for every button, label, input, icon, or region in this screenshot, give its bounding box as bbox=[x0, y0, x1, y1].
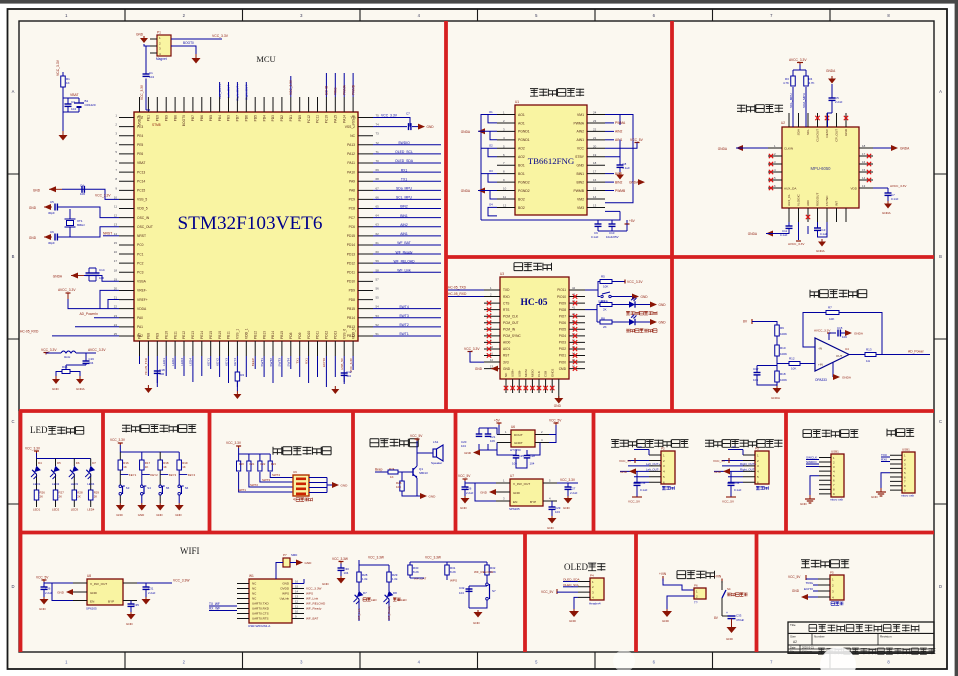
wire top extensions long bbox=[291, 73, 353, 97]
section title 右轮电机编码器接口 bbox=[705, 440, 783, 448]
svg-text:1K: 1K bbox=[66, 81, 70, 85]
svg-text:VCC_3.3V: VCC_3.3V bbox=[56, 59, 60, 76]
ground GND wifi switch bbox=[477, 610, 479, 612]
svg-text:8MHz: 8MHz bbox=[77, 223, 85, 227]
wire reg upper caps bottom bbox=[516, 458, 527, 468]
ground below C19 bbox=[334, 386, 336, 389]
svg-text:PA0: PA0 bbox=[137, 316, 143, 320]
svg-text:GNDA: GNDA bbox=[842, 376, 852, 380]
svg-text:12: 12 bbox=[503, 203, 507, 207]
svg-text:12: 12 bbox=[295, 600, 299, 604]
svg-text:R18: R18 bbox=[780, 372, 786, 376]
svg-text:CLKIN: CLKIN bbox=[784, 146, 793, 150]
ground GND oled bbox=[573, 609, 575, 611]
svg-text:PIO4: PIO4 bbox=[559, 334, 566, 338]
mcu left pins bbox=[119, 118, 134, 336]
svg-text:AO2: AO2 bbox=[518, 147, 525, 151]
svg-text:C17: C17 bbox=[753, 367, 759, 371]
svg-text:BO1: BO1 bbox=[518, 172, 525, 176]
net label WPS pull bbox=[446, 575, 448, 580]
svg-text:GND: GND bbox=[29, 206, 37, 210]
title 自平衡小车系统设计与控制 bbox=[809, 625, 919, 632]
svg-text:BO1: BO1 bbox=[518, 164, 525, 168]
ground C35 bbox=[130, 612, 132, 614]
svg-text:AVCC_3.3V: AVCC_3.3V bbox=[58, 288, 76, 292]
svg-text:UART0.RXD: UART0.RXD bbox=[252, 607, 270, 611]
svg-text:PD12: PD12 bbox=[325, 331, 329, 339]
svg-text:SWT4: SWT4 bbox=[272, 473, 280, 477]
net label AIN1 VCC_5V bbox=[605, 139, 614, 141]
svg-text:1K: 1K bbox=[145, 465, 149, 469]
x marks U3 bottom bbox=[504, 386, 508, 390]
wire PA0 bbox=[94, 317, 119, 319]
capacitor C10 10uF bbox=[609, 223, 616, 225]
red divider horizontal y411 bbox=[19, 409, 934, 413]
wire wifi led col bbox=[358, 582, 360, 621]
capacitor C35 byp wifi bbox=[128, 603, 135, 605]
top dark bar bbox=[0, 0, 958, 4]
wire 8V to divider bbox=[752, 322, 777, 326]
U2 left pins bbox=[768, 148, 782, 188]
svg-text:59: 59 bbox=[376, 259, 380, 263]
battery B1 CR1220 bbox=[74, 102, 84, 104]
svg-text:PGND1: PGND1 bbox=[518, 138, 530, 142]
svg-text:UART0.CTS: UART0.CTS bbox=[252, 612, 269, 616]
svg-text:PB10: PB10 bbox=[218, 331, 222, 339]
svg-text:GND: GND bbox=[800, 502, 808, 506]
svg-text:3V3: 3V3 bbox=[503, 360, 509, 364]
svg-text:PC2: PC2 bbox=[137, 261, 144, 265]
wire pullup rail bbox=[410, 562, 487, 565]
svg-text:+VIN: +VIN bbox=[714, 575, 722, 579]
svg-text:PE12: PE12 bbox=[182, 331, 186, 339]
svg-text:P7: P7 bbox=[283, 553, 287, 557]
svg-text:Left_OUT-: Left_OUT- bbox=[227, 84, 231, 98]
svg-text:PC12: PC12 bbox=[307, 115, 311, 123]
resistor R21 1K dip bbox=[247, 461, 251, 471]
wire dip column 1 bbox=[239, 454, 293, 492]
svg-text:AIN1: AIN1 bbox=[576, 138, 584, 142]
switch S7 wifi bbox=[469, 578, 487, 608]
svg-text:TB6612FNG: TB6612FNG bbox=[528, 156, 575, 166]
svg-text:PB4: PB4 bbox=[218, 115, 222, 121]
svg-text:OLED_SCL: OLED_SCL bbox=[395, 150, 413, 154]
svg-text:R21: R21 bbox=[250, 462, 255, 466]
svg-text:PD8: PD8 bbox=[289, 332, 293, 339]
section title 电源接口 bbox=[677, 571, 714, 579]
svg-text:2020-5-21: 2020-5-21 bbox=[802, 645, 814, 649]
svg-text:16: 16 bbox=[295, 580, 299, 584]
svg-text:PD5: PD5 bbox=[253, 115, 257, 122]
wire key column 3 bbox=[159, 452, 161, 503]
svg-text:AD0: AD0 bbox=[806, 200, 810, 206]
svg-text:R7: R7 bbox=[828, 306, 832, 310]
svg-text:PD7: PD7 bbox=[236, 115, 240, 122]
P4 pins bbox=[578, 582, 590, 598]
svg-text:OLED: OLED bbox=[564, 562, 588, 572]
net label KEY3 bbox=[160, 474, 168, 476]
svg-text:OSC_OUT: OSC_OUT bbox=[137, 225, 153, 229]
svg-text:104: 104 bbox=[530, 462, 535, 466]
capacitor C3 bbox=[65, 103, 72, 105]
wire pullups bbox=[793, 65, 806, 128]
wire key column 2 bbox=[141, 452, 143, 503]
svg-text:22: 22 bbox=[593, 127, 597, 131]
svg-text:VSS_1: VSS_1 bbox=[236, 329, 240, 339]
resistor R22 1K dip bbox=[258, 461, 262, 471]
capacitor C enc bbox=[634, 482, 641, 484]
svg-text:8V: 8V bbox=[743, 320, 748, 324]
svg-text:57: 57 bbox=[376, 277, 380, 281]
svg-text:S7: S7 bbox=[492, 589, 496, 593]
svg-text:R5: R5 bbox=[601, 275, 605, 279]
resistor R19 1K bbox=[177, 460, 182, 470]
svg-text:NRST: NRST bbox=[103, 231, 112, 235]
svg-text:Revision: Revision bbox=[880, 635, 892, 639]
svg-text:WF_Link: WF_Link bbox=[357, 608, 361, 620]
svg-text:104: 104 bbox=[346, 374, 351, 378]
svg-text:10K: 10K bbox=[791, 367, 796, 371]
svg-text:PD14: PD14 bbox=[347, 243, 355, 247]
svg-text:VM2: VM2 bbox=[577, 197, 584, 201]
U7 pins bbox=[496, 483, 557, 501]
svg-text:A: A bbox=[12, 89, 15, 94]
svg-text:CLK: CLK bbox=[537, 371, 541, 377]
resistor R15 filter bbox=[62, 370, 70, 374]
ground GND arrow wifi reg bbox=[66, 589, 73, 595]
svg-text:BO2: BO2 bbox=[518, 197, 525, 201]
wire net AIN2 bbox=[373, 226, 441, 228]
svg-text:GND: GND bbox=[480, 491, 488, 495]
svg-text:BIN2: BIN2 bbox=[615, 180, 622, 184]
capacitor C19 bottom right bbox=[341, 372, 348, 374]
svg-text:SMD: SMD bbox=[291, 553, 297, 557]
capacitor C11 gyro bottom bbox=[786, 225, 793, 227]
capacitor C12 gyro bottom2 bbox=[814, 227, 821, 229]
svg-text:2.2uF: 2.2uF bbox=[148, 591, 156, 595]
svg-text:GNDT: GNDT bbox=[514, 441, 523, 445]
wire VCC_3.3V net row bbox=[373, 118, 410, 127]
svg-text:PD1: PD1 bbox=[289, 115, 293, 122]
svg-text:PWMB: PWMB bbox=[573, 189, 584, 193]
svg-text:LED4: LED4 bbox=[87, 508, 95, 512]
svg-text:PE7: PE7 bbox=[138, 333, 142, 339]
wire BOOT0 bbox=[171, 46, 196, 54]
svg-text:0.1uF: 0.1uF bbox=[591, 235, 599, 239]
resistor R18 1K bbox=[158, 460, 163, 470]
svg-text:C:\Users: C:\Users bbox=[802, 649, 813, 653]
ground C26 bbox=[464, 496, 466, 498]
svg-text:PB12: PB12 bbox=[253, 331, 257, 339]
ground GNDA filter bbox=[79, 376, 81, 379]
svg-text:PE13: PE13 bbox=[191, 331, 195, 339]
svg-text:PD10: PD10 bbox=[347, 280, 355, 284]
svg-text:24: 24 bbox=[114, 323, 118, 327]
svg-text:10K: 10K bbox=[603, 285, 608, 289]
svg-text:GND: GND bbox=[282, 582, 290, 586]
svg-text:SDA: SDA bbox=[797, 128, 801, 135]
wire base bbox=[375, 471, 413, 473]
svg-text:VCC_5V: VCC_5V bbox=[630, 138, 644, 142]
svg-text:C6: C6 bbox=[732, 445, 736, 449]
red divider vertical x672 bbox=[670, 21, 674, 412]
svg-text:SWCLK: SWCLK bbox=[806, 456, 818, 460]
capacitor C9 0.1uF bbox=[595, 223, 602, 225]
wire net RX1 bbox=[373, 171, 441, 173]
resistor R1 bbox=[61, 76, 66, 87]
svg-text:VCC_3.3V: VCC_3.3V bbox=[560, 478, 576, 482]
wire dip column 3 bbox=[260, 454, 293, 482]
ground GND arrow D2 bbox=[650, 319, 657, 325]
svg-text:PD11: PD11 bbox=[316, 331, 320, 339]
svg-text:C7: C7 bbox=[406, 111, 410, 115]
wire oled gnd bbox=[574, 597, 578, 609]
svg-text:PC3: PC3 bbox=[137, 270, 144, 274]
svg-text:PB6: PB6 bbox=[200, 115, 204, 121]
svg-text:12: 12 bbox=[490, 358, 494, 362]
svg-text:PC0: PC0 bbox=[137, 243, 144, 247]
svg-text:VCC_3.3V: VCC_3.3V bbox=[41, 348, 57, 352]
svg-text:D: D bbox=[939, 584, 942, 589]
svg-text:LED1: LED1 bbox=[33, 482, 41, 486]
svg-text:70: 70 bbox=[376, 159, 380, 163]
svg-text:VCC_3.3V: VCC_3.3V bbox=[381, 114, 398, 118]
svg-text:KEY4: KEY4 bbox=[188, 473, 196, 477]
svg-text:2K: 2K bbox=[59, 495, 63, 499]
svg-text:TX1: TX1 bbox=[296, 358, 300, 364]
svg-text:30pF: 30pF bbox=[48, 241, 55, 245]
svg-text:O4: O4 bbox=[489, 203, 493, 207]
wire led column 3 bbox=[73, 459, 75, 508]
svg-text:GND: GND bbox=[620, 470, 628, 474]
svg-text:62: 62 bbox=[376, 232, 380, 236]
wire U1 left bus bbox=[481, 115, 620, 221]
svg-text:EN: EN bbox=[90, 600, 94, 604]
mcu right inside labels bbox=[345, 116, 356, 338]
svg-text:VDD: VDD bbox=[850, 186, 857, 190]
svg-text:D8: D8 bbox=[393, 591, 397, 595]
svg-text:PB3: PB3 bbox=[227, 115, 231, 121]
U1 pin numbers bbox=[503, 111, 597, 208]
svg-text:SWT1: SWT1 bbox=[260, 358, 264, 367]
svg-text:BIN1: BIN1 bbox=[615, 172, 622, 176]
svg-text:13: 13 bbox=[862, 184, 866, 188]
svg-text:SCL_MPU: SCL_MPU bbox=[396, 196, 413, 200]
svg-text:P2: P2 bbox=[661, 447, 665, 451]
svg-text:OPA333: OPA333 bbox=[815, 378, 827, 382]
net label VCC_5V enc bottom bbox=[632, 496, 642, 498]
svg-text:ECHO: ECHO bbox=[325, 85, 329, 95]
resistor R28 1.0k wifi bbox=[357, 572, 361, 582]
net label AIN2 bbox=[605, 130, 614, 132]
svg-text:File: File bbox=[790, 649, 795, 653]
svg-text:GND: GND bbox=[460, 506, 468, 510]
svg-text:RESV: RESV bbox=[825, 128, 829, 137]
svg-text:HC-05_TXD: HC-05_TXD bbox=[144, 357, 148, 375]
ground C31 bbox=[145, 597, 147, 599]
svg-text:+5V: +5V bbox=[494, 419, 501, 423]
border row ticks bbox=[8, 174, 948, 504]
svg-text:44: 44 bbox=[572, 286, 576, 290]
svg-text:B: B bbox=[939, 254, 942, 259]
capacitor C32 wifi bbox=[466, 588, 473, 590]
svg-text:1K: 1K bbox=[123, 465, 127, 469]
wire net OLED_SCL bbox=[373, 153, 441, 155]
svg-text:69: 69 bbox=[376, 168, 380, 172]
ground GND arrow reg upper bbox=[473, 450, 480, 456]
wire opamp vss bbox=[832, 362, 834, 377]
svg-text:O2: O2 bbox=[489, 144, 493, 148]
wire net SCL_MPU bbox=[373, 198, 441, 200]
x no-connect marks U2 top bbox=[815, 116, 819, 120]
svg-text:AIN1: AIN1 bbox=[615, 138, 622, 142]
P3 pins bbox=[743, 455, 755, 482]
svg-text:LED: LED bbox=[371, 598, 377, 602]
svg-text:AVCC_3.3V: AVCC_3.3V bbox=[814, 329, 831, 333]
wire led column 2 bbox=[55, 459, 57, 508]
wire PIO11 to R5 bbox=[585, 282, 600, 297]
svg-text:ECHO: ECHO bbox=[804, 587, 814, 591]
svg-text:LED1: LED1 bbox=[162, 358, 166, 366]
svg-text:C: C bbox=[939, 419, 942, 424]
wire VCC STBY bbox=[605, 140, 637, 165]
red divider vertical x756.5 row4 bbox=[755, 533, 759, 653]
svg-text:SCL: SCL bbox=[806, 129, 810, 135]
svg-text:VBAT: VBAT bbox=[70, 93, 79, 97]
svg-text:GND: GND bbox=[126, 622, 134, 626]
section title 左轮电机编码器接口 bbox=[611, 440, 689, 448]
svg-text:2.2uF: 2.2uF bbox=[570, 491, 578, 495]
svg-text:LED2: LED2 bbox=[52, 508, 60, 512]
svg-text:68: 68 bbox=[376, 177, 380, 181]
svg-text:micro usb: micro usb bbox=[901, 494, 914, 498]
svg-text:13: 13 bbox=[295, 595, 299, 599]
ground C29 bbox=[551, 516, 553, 518]
svg-text:PIO11: PIO11 bbox=[557, 288, 566, 292]
svg-text:PIO8: PIO8 bbox=[559, 308, 566, 312]
svg-text:PC15: PC15 bbox=[137, 189, 145, 193]
wire led column 4 bbox=[90, 459, 92, 508]
wire led rail bbox=[37, 458, 91, 460]
svg-text:USB-: USB- bbox=[517, 370, 521, 377]
svg-text:FSYNC: FSYNC bbox=[825, 195, 829, 206]
svg-text:GND: GND bbox=[726, 637, 734, 641]
svg-text:U1: U1 bbox=[515, 100, 519, 104]
power VCC_3.3V tick bt bbox=[624, 280, 626, 284]
svg-text:11: 11 bbox=[114, 205, 117, 209]
section title 蜂鸣器电路 bbox=[370, 439, 418, 447]
svg-text:LED2: LED2 bbox=[171, 358, 175, 366]
svg-text:VCC_5V: VCC_5V bbox=[619, 459, 632, 463]
svg-text:GND: GND bbox=[576, 164, 584, 168]
resistor R26 2K bbox=[34, 490, 39, 500]
svg-text:PC6: PC6 bbox=[349, 225, 356, 229]
svg-text:104: 104 bbox=[344, 571, 349, 575]
svg-text:PA11: PA11 bbox=[347, 161, 355, 165]
svg-text:GNDA: GNDA bbox=[826, 69, 836, 73]
svg-text:PIO7: PIO7 bbox=[559, 314, 566, 318]
section title 仿真下载接口 bbox=[803, 430, 858, 438]
U1 right pins bbox=[587, 115, 605, 208]
svg-text:2.2uF: 2.2uF bbox=[45, 591, 53, 595]
svg-text:13: 13 bbox=[593, 203, 597, 207]
svg-text:PB11: PB11 bbox=[227, 331, 231, 339]
wire VM1 loop bbox=[605, 115, 620, 126]
svg-text:C32: C32 bbox=[459, 586, 465, 590]
svg-text:104: 104 bbox=[149, 75, 154, 79]
svg-text:60: 60 bbox=[376, 250, 380, 254]
svg-text:U7: U7 bbox=[510, 474, 514, 478]
svg-text:VCC_5V: VCC_5V bbox=[788, 575, 801, 579]
wire PA1 bbox=[75, 326, 119, 328]
wire divider2 bbox=[776, 356, 778, 371]
svg-text:Left_OUT-: Left_OUT- bbox=[646, 467, 659, 471]
svg-text:PB13: PB13 bbox=[262, 331, 266, 339]
section title 电机驱动电路 bbox=[530, 89, 584, 97]
svg-text:2K: 2K bbox=[603, 325, 607, 329]
U1 left pins bbox=[497, 115, 515, 208]
svg-text:AIO0: AIO0 bbox=[503, 341, 510, 345]
svg-text:LED2: LED2 bbox=[52, 482, 60, 486]
ground GNDA divider bbox=[776, 386, 778, 388]
svg-text:LED: LED bbox=[30, 425, 48, 435]
wire SWPB to GND bbox=[612, 296, 633, 298]
wire filter bbox=[46, 353, 96, 371]
svg-text:R22: R22 bbox=[261, 462, 266, 466]
svg-text:GNDA: GNDA bbox=[771, 396, 781, 400]
svg-text:Right_OUT-: Right_OUT- bbox=[740, 467, 755, 471]
svg-text:P1: P1 bbox=[157, 31, 161, 35]
title block frame bbox=[788, 622, 934, 653]
capacitor C1 bbox=[143, 73, 150, 75]
svg-text:VCC_3.3V: VCC_3.3V bbox=[212, 34, 229, 38]
svg-text:14: 14 bbox=[593, 195, 597, 199]
resistor R32 8.2K wifi bbox=[485, 565, 489, 575]
wire OSC_IN bbox=[58, 207, 120, 218]
svg-text:19: 19 bbox=[593, 153, 597, 157]
svg-text:Right_OUT-: Right_OUT- bbox=[245, 84, 249, 100]
svg-text:SWDIO: SWDIO bbox=[398, 141, 410, 145]
ground GNDA arrow opamp bottom bbox=[833, 374, 840, 380]
svg-text:VCC: VCC bbox=[577, 147, 585, 151]
svg-text:R23: R23 bbox=[271, 462, 276, 466]
resistor R9 100K bbox=[775, 325, 780, 336]
ground GNDA bottom tri bbox=[821, 239, 823, 242]
svg-text:VCC_3.3W: VCC_3.3W bbox=[332, 557, 348, 561]
svg-text:VSS_6: VSS_6 bbox=[342, 329, 346, 339]
svg-text:PB14: PB14 bbox=[347, 316, 355, 320]
wire net OLED_SDA bbox=[373, 162, 441, 164]
svg-text:C4: C4 bbox=[80, 184, 84, 188]
section title 串口一 bbox=[887, 429, 914, 437]
wire VSSA bbox=[84, 276, 119, 282]
svg-text:SP6205: SP6205 bbox=[86, 607, 97, 611]
svg-text:0.1uF: 0.1uF bbox=[820, 232, 828, 236]
svg-text:AIN2: AIN2 bbox=[576, 130, 584, 134]
mcu left pin numbers bbox=[114, 114, 118, 336]
svg-text:GND: GND bbox=[341, 484, 349, 488]
svg-text:14: 14 bbox=[295, 590, 299, 594]
wire ultra vcc bbox=[806, 578, 818, 580]
capacitor C29 byp bbox=[549, 506, 556, 508]
label 总电源开关 bbox=[727, 593, 748, 596]
svg-text:OUT: OUT bbox=[836, 354, 843, 358]
mcu U? STM32F103VET6 chip body bbox=[134, 112, 358, 341]
svg-text:WF_Ready: WF_Ready bbox=[396, 250, 413, 254]
svg-text:AD_PowerIn: AD_PowerIn bbox=[79, 312, 98, 316]
svg-text:ECHO: ECHO bbox=[322, 357, 326, 367]
svg-text:4.7K: 4.7K bbox=[783, 81, 789, 85]
